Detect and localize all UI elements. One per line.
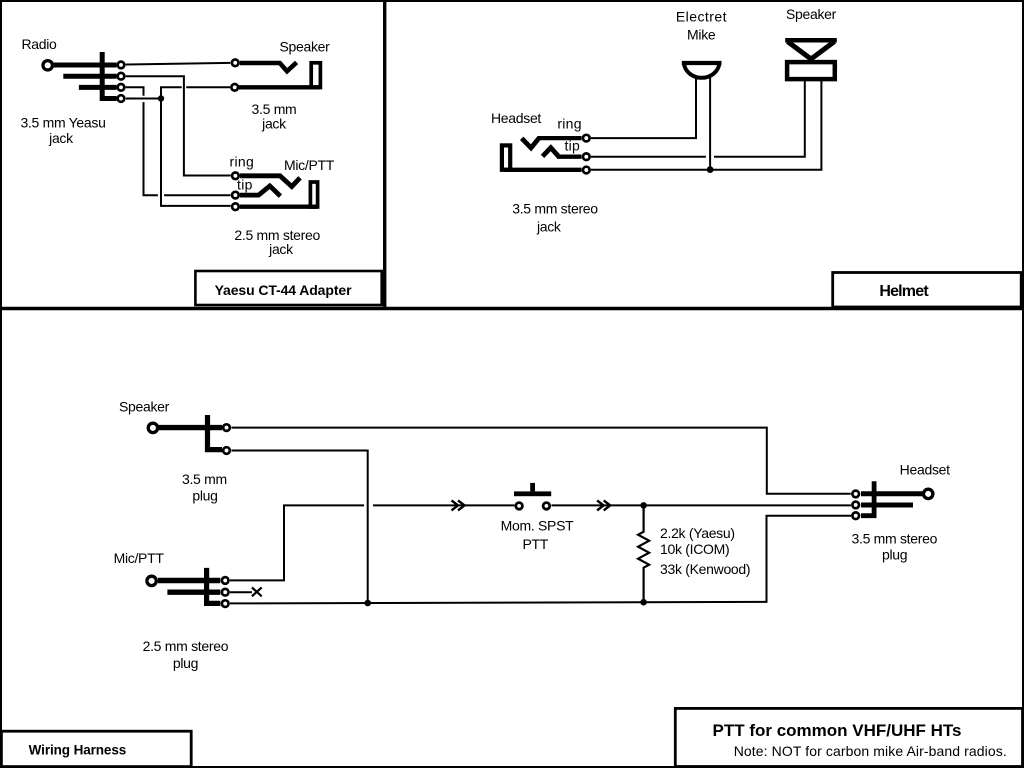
connector P1 3.5mm Yeasu plug : tip circle [43, 61, 52, 70]
svg-text:Radio: Radio [21, 36, 57, 52]
jack J2 sleeve contact circle [232, 203, 239, 210]
connector P4 bar ring [861, 503, 913, 508]
connector P1 bar ring1 [63, 74, 116, 79]
wire from P1 pin4 to ground node [126, 98, 158, 100]
connector P3 bar tip [158, 578, 220, 583]
wire mike right lead to ground node [709, 77, 711, 170]
connector P1 pin 3 [118, 84, 125, 91]
wire mic-ring from P1 pin2 down to J2 ring [126, 76, 231, 175]
jack J3 ring spring contact [522, 138, 540, 148]
title box Wiring Harness [1, 731, 191, 766]
svg-text:ring: ring [230, 154, 255, 170]
svg-text:ring: ring [557, 116, 582, 132]
jack J3 ring circle [583, 135, 590, 142]
connector P3 pin 3 [222, 600, 229, 607]
svg-text:PTT for common VHF/UHF HTs: PTT for common VHF/UHF HTs [712, 721, 961, 740]
svg-text:Mic/PTT: Mic/PTT [284, 157, 335, 173]
cable marker chevrons right [597, 500, 610, 510]
svg-text:Mom. SPST: Mom. SPST [501, 518, 575, 534]
jack J1 body [311, 63, 320, 88]
wire from switch to P4 pin2 [552, 504, 851, 506]
wire no-connect from P3 pin2 [230, 591, 252, 593]
svg-text:Mic/PTT: Mic/PTT [114, 550, 165, 566]
jack J2 body [310, 182, 317, 207]
junction ground node [158, 95, 164, 101]
connector P4 pin 3 [852, 512, 859, 519]
svg-text:Electret: Electret [676, 9, 727, 25]
connector P2 body bar and sleeve arm [208, 415, 223, 450]
panel divider horizontal [0, 307, 1024, 310]
connector P4 pin 2 [852, 502, 859, 509]
connector P4 body bar and sleeve arm [861, 481, 874, 516]
svg-text:2.5 mm stereo: 2.5 mm stereo [143, 638, 229, 654]
jack J3 sleeve circle [583, 167, 590, 174]
speaker SP1 : top bar [785, 38, 837, 43]
jack J1 tip spring contact [240, 62, 297, 71]
svg-text:plug: plug [192, 488, 217, 504]
jack J3 sleeve bar [504, 168, 582, 172]
svg-text:plug: plug [882, 547, 907, 563]
connector P3 bar ring [167, 590, 220, 595]
connector P1 body bar and sleeve arm [102, 52, 116, 99]
svg-text:Headset: Headset [491, 110, 541, 126]
wire speaker-hi from P2 pin1 to P4 pin1 [232, 428, 851, 494]
svg-text:Speaker: Speaker [119, 398, 170, 414]
connector P1 pin 4 [118, 95, 125, 102]
panel divider vertical [383, 0, 386, 309]
jack J3 ring bar [538, 136, 582, 140]
svg-text:Headset: Headset [900, 461, 950, 477]
connector P2 3.5mm plug : tip circle [148, 423, 157, 432]
junction node speaker-lo ground [364, 600, 371, 607]
switch S1 actuator stem [530, 483, 535, 492]
connector P4 tip circle [924, 489, 933, 498]
jack J2 2.5mm stereo : ring contact circle [232, 173, 239, 180]
connector P4 bar tip [861, 491, 923, 496]
jack J1 3.5mm : tip contact circle [232, 60, 239, 67]
svg-text:3.5 mm: 3.5 mm [182, 471, 227, 487]
microphone MK1 dome [684, 63, 720, 78]
wire tip from J3 to speaker left lead (break at mike lead crossing) [591, 81, 805, 157]
resistor R1 [638, 505, 649, 602]
no-connect X mark [252, 587, 262, 596]
connector P1 bar tip [53, 63, 117, 68]
svg-text:tip: tip [237, 177, 253, 193]
title box PTT for common VHF/UHF HTs [675, 708, 1022, 766]
svg-text:plug: plug [173, 655, 198, 671]
cable marker chevrons left [452, 500, 465, 510]
svg-text:jack: jack [48, 130, 74, 146]
connector P3 pin 2 [222, 589, 229, 596]
microphone MK1 electret : top bar [682, 61, 722, 65]
jack J1 sleeve contact circle [231, 84, 238, 91]
junction node mike-sleeve [707, 166, 714, 173]
jack J2 tip contact circle [232, 192, 239, 199]
svg-text:jack: jack [261, 116, 287, 132]
switch S1 Mom. SPST PTT : left contact [516, 503, 523, 510]
speaker SP1 body [787, 62, 835, 79]
svg-text:3.5 mm Yeasu: 3.5 mm Yeasu [20, 115, 105, 131]
title box Helmet [833, 273, 1022, 308]
wire sleeve from J3 to speaker right lead [591, 81, 821, 170]
svg-text:3.5 mm stereo: 3.5 mm stereo [852, 531, 938, 547]
svg-text:Wiring Harness: Wiring Harness [29, 743, 127, 758]
svg-text:Mike: Mike [687, 27, 716, 43]
svg-text:jack: jack [536, 219, 562, 235]
connector P2 bar tip [158, 425, 222, 430]
svg-text:Yaesu CT-44 Adapter: Yaesu CT-44 Adapter [215, 282, 353, 298]
svg-text:Speaker: Speaker [279, 38, 330, 54]
svg-text:Note: NOT for carbon mike Air-: Note: NOT for carbon mike Air-band radio… [734, 743, 1007, 759]
jack J3 tip circle [583, 153, 590, 160]
switch S1 right contact [543, 503, 550, 510]
wire ground from J1 sleeve down to J2 sleeve (with crossover break) [161, 87, 231, 206]
wire PTT from P3 pin1 up and right to switch (break at crossing) [230, 505, 514, 580]
jack J2 tip spring contact [240, 186, 280, 196]
svg-text:jack: jack [268, 241, 294, 257]
title box Yaesu CT-44 Adapter [195, 271, 381, 305]
connector P3 body bar and sleeve arm [207, 568, 221, 604]
svg-text:Helmet: Helmet [879, 283, 929, 300]
connector P2 pin 1 [223, 424, 230, 431]
connector P1 pin 2 [118, 73, 125, 80]
jack J3 3.5mm stereo body [502, 145, 510, 169]
svg-text:PTT: PTT [523, 536, 549, 552]
switch S1 actuator bar [514, 491, 551, 496]
wire ground bus from P3 pin3 to P4 pin3 [230, 516, 851, 604]
jack J2 sleeve bar [240, 205, 317, 209]
connector P2 pin 2 [223, 447, 230, 454]
junction node resistor bottom [640, 599, 647, 606]
connector P4 3.5mm stereo plug : pin 1 [852, 491, 859, 498]
junction node resistor top [640, 502, 647, 509]
jack J3 tip spring contact [543, 148, 560, 157]
jack J2 ring spring contact [240, 176, 300, 187]
svg-text:33k (Kenwood): 33k (Kenwood) [660, 561, 750, 577]
connector P1 pin 1 [118, 62, 125, 69]
jack J3 tip bar [557, 155, 582, 159]
svg-text:10k (ICOM): 10k (ICOM) [660, 541, 729, 557]
svg-text:Speaker: Speaker [786, 6, 837, 22]
wire mic-tip from P1 pin3 down to J2 tip (with crossover breaks) [126, 87, 231, 195]
connector P1 bar ring2 [79, 85, 117, 90]
svg-text:3.5 mm stereo: 3.5 mm stereo [512, 201, 598, 217]
connector P3 pin 1 [222, 577, 229, 584]
wire ring from J3 to mike left lead [591, 78, 696, 139]
wire speaker-hi from P1 pin1 to jack J1 tip [126, 63, 231, 65]
speaker SP1 cone triangle [788, 42, 835, 60]
svg-text:2.2k (Yaesu): 2.2k (Yaesu) [660, 525, 735, 541]
connector P3 2.5mm stereo plug : tip circle [147, 576, 156, 585]
jack J1 sleeve bar [239, 85, 320, 89]
wire speaker-lo from P2 pin2 down to ground bus [232, 451, 368, 604]
